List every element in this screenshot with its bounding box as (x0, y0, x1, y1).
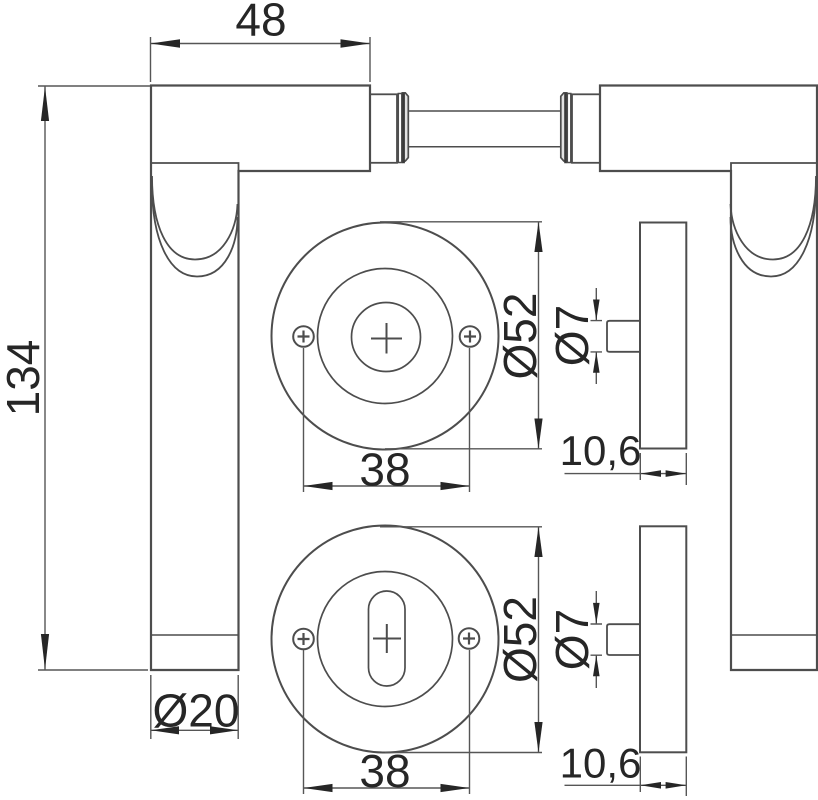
right collar ring 1 (567, 94, 571, 163)
right lever step line (731, 163, 817, 171)
top rosette center cross (371, 323, 402, 354)
dim O20 line (151, 729, 238, 731)
bottom side-view spindle stub (607, 624, 640, 655)
right collar ring 2 (561, 93, 567, 161)
left lever bend inner arc (152, 176, 238, 260)
bottom rosette dia52 line (538, 527, 540, 753)
svg-text:Ø7: Ø7 (546, 305, 598, 366)
top rosette dia52 line (538, 222, 540, 449)
top rosette 38 extension lines (304, 348, 470, 492)
right neck cylinder (572, 94, 600, 163)
top rosette middle circle (318, 269, 453, 404)
right lever outline (600, 86, 817, 671)
bottom dia7 arrowheads (593, 603, 600, 624)
bottom 38 arrowheads (304, 784, 333, 792)
top dia7 extension ticks (591, 321, 603, 352)
bottom rosette 38 extension lines (304, 650, 470, 794)
dim 134 arrowheads (41, 87, 49, 122)
dim 48 arrowheads (151, 39, 181, 48)
left collar ring 2 (402, 93, 408, 161)
bottom rosette center cross (373, 624, 401, 653)
top rosette dia52 extension lines (380, 222, 542, 449)
top 38 arrowheads (304, 482, 333, 490)
top side-view spindle stub (607, 321, 640, 352)
svg-text:Ø7: Ø7 (546, 609, 598, 670)
top dia52 arrowheads (534, 222, 542, 252)
left collar ring 1 (398, 94, 402, 163)
svg-text:48: 48 (235, 0, 286, 46)
bottom 10,6 line (565, 784, 687, 786)
top 10,6 arrowheads (640, 470, 661, 477)
svg-text:Ø52: Ø52 (494, 596, 546, 683)
bottom rosette middle circle (318, 572, 453, 707)
top side-view rosette body (640, 223, 686, 449)
top rosette inner circle (352, 303, 421, 372)
svg-text:38: 38 (359, 444, 410, 496)
dim 134 line (44, 87, 46, 670)
top 10,6 extension lines (640, 453, 686, 485)
top dia7 arrowheads (593, 300, 600, 321)
dim 48 extension lines (151, 37, 371, 82)
bottom side-view rosette body (640, 526, 686, 752)
left lever step line (151, 163, 239, 171)
dim O20 extension lines (151, 675, 238, 739)
bottom rosette left screw (293, 629, 314, 650)
bottom 10,6 extension lines (640, 757, 686, 797)
svg-text:Ø52: Ø52 (494, 293, 546, 380)
top rosette outer circle (272, 223, 499, 450)
svg-text:Ø20: Ø20 (153, 685, 240, 737)
bottom rosette keyhole slot (369, 591, 406, 686)
left lever outline (151, 86, 370, 671)
left lever bend outer arc (152, 184, 238, 277)
bottom dia52 arrowheads (534, 527, 542, 557)
top rosette 38 line (304, 485, 470, 487)
right lever bend outer arc (731, 184, 817, 277)
top 10,6 line (565, 473, 687, 475)
bottom dia7 arrow tails (595, 591, 597, 688)
right lever bend inner arc (731, 176, 817, 260)
dim 134 extension lines (38, 86, 150, 670)
bottom dia7 extension ticks (591, 624, 603, 655)
bottom rosette right screw (459, 628, 480, 649)
bottom rosette dia52 extension lines (380, 527, 542, 753)
top rosette right screw (460, 326, 481, 347)
dim 48 line (151, 43, 371, 45)
svg-text:38: 38 (359, 745, 410, 797)
left neck cylinder (370, 94, 397, 163)
bottom 10,6 arrowheads (640, 782, 661, 789)
bottom rosette 38 line (304, 787, 470, 789)
svg-text:134: 134 (0, 340, 49, 417)
svg-text:10,6: 10,6 (560, 427, 642, 474)
right lever end cap line (731, 634, 817, 636)
top rosette left screw (293, 326, 314, 347)
left lever end cap line (151, 634, 239, 636)
svg-text:10,6: 10,6 (560, 740, 642, 787)
spindle (408, 111, 561, 147)
bottom rosette outer circle (272, 526, 499, 753)
dim O20 arrowheads (151, 726, 179, 734)
top dia7 arrow tails (595, 288, 597, 384)
